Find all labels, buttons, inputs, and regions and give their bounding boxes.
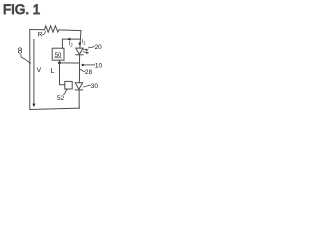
svg-text:V: V [37, 67, 42, 74]
wire lead block 50 bottom [59, 60, 61, 63]
svg-text:52: 52 [57, 95, 65, 102]
wire L branch down to block 52 [60, 63, 65, 85]
label R [38, 31, 46, 38]
voltage arrow V [32, 40, 35, 108]
label 52 [57, 89, 68, 102]
wire top right segment [59, 29, 81, 32]
resistor R [45, 26, 60, 32]
wire lead from bus down to block 50 [61, 39, 63, 48]
label 8 (input lead) [18, 47, 31, 64]
wire left rail [29, 29, 31, 109]
svg-text:L: L [51, 68, 55, 75]
wire bottom [30, 108, 79, 109]
node junction below block 50 [58, 62, 61, 65]
svg-text:28: 28 [85, 69, 93, 76]
diode 30 [75, 83, 83, 90]
wire shunt bus [62, 38, 80, 40]
label I2 [69, 41, 74, 48]
svg-text:30: 30 [91, 83, 99, 90]
block 50 [52, 48, 64, 60]
svg-text:FIG. 1: FIG. 1 [3, 2, 40, 17]
wire right rail [79, 31, 81, 109]
label 10 [82, 63, 103, 70]
svg-text:20: 20 [95, 44, 103, 51]
wire junction to right rail [60, 62, 80, 64]
svg-text:2: 2 [70, 42, 73, 47]
block 52 [65, 81, 72, 89]
svg-text:10: 10 [95, 63, 103, 70]
current arrow I2 on bus [67, 38, 71, 41]
current arrow I1 on rail [78, 43, 81, 46]
label 20 [89, 44, 103, 51]
svg-text:R: R [38, 31, 43, 38]
svg-text:1: 1 [83, 41, 86, 46]
LED 20 [76, 48, 89, 55]
label 28 [80, 69, 93, 76]
label 30 [83, 83, 98, 90]
label I1 [82, 39, 87, 46]
wire top left segment [30, 29, 45, 31]
svg-text:8: 8 [18, 47, 23, 56]
